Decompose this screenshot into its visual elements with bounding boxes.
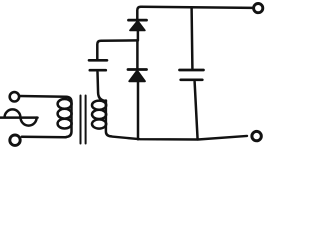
transformer T1 primary winding xyxy=(58,97,72,137)
diode D2 xyxy=(128,70,147,140)
transformer T1 secondary winding xyxy=(92,72,112,136)
AC plug top prong xyxy=(10,92,19,101)
wire plug bottom to primary xyxy=(22,136,66,139)
capacitor C1 top lead + wire to diode node xyxy=(97,40,137,59)
wire plug top to primary xyxy=(20,95,66,98)
top rail wire xyxy=(141,7,252,8)
capacitor C2 bottom lead xyxy=(195,82,198,140)
AC plug bottom prong xyxy=(10,135,20,145)
output terminal top xyxy=(254,4,263,13)
wire node A to D2 xyxy=(136,40,139,68)
capacitor C1 plates xyxy=(89,60,107,70)
capacitor C2 top lead xyxy=(190,7,193,68)
diode D1 xyxy=(129,20,147,40)
bottom rail wire xyxy=(112,136,247,140)
wire D1 cathode to top rail corner xyxy=(137,7,141,20)
AC plug body (S symbol) xyxy=(0,109,38,125)
capacitor C2 plates xyxy=(180,70,204,80)
output terminal bottom xyxy=(252,131,261,140)
transformer T1 core xyxy=(81,96,86,144)
